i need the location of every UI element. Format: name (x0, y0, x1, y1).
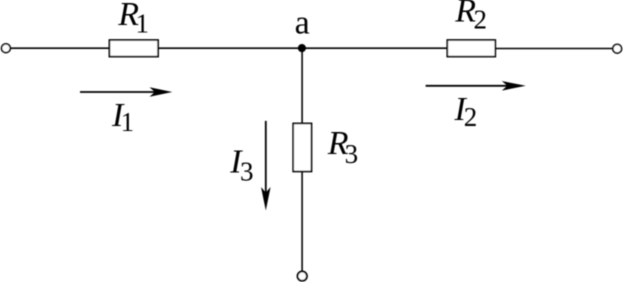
resistor R2 (447, 40, 495, 57)
svg-text:2: 2 (464, 102, 478, 132)
current arrow I2 (426, 81, 526, 91)
svg-text:3: 3 (345, 139, 359, 169)
bottom terminal (298, 271, 307, 280)
svg-text:1: 1 (121, 107, 135, 137)
wire node a to R2 (302, 47, 447, 49)
wire node a down to R3 (301, 48, 303, 123)
current arrow I1 (80, 87, 172, 97)
wire R3 to bottom terminal (301, 172, 303, 271)
svg-text:1: 1 (136, 8, 150, 38)
wire left terminal to R1 (11, 47, 110, 49)
current arrow I3 (261, 121, 271, 211)
svg-text:3: 3 (240, 157, 254, 187)
right terminal (613, 44, 622, 53)
wire R2 to right terminal (495, 48, 612, 50)
resistor R1 (109, 40, 158, 57)
node a junction dot (298, 44, 306, 52)
left terminal (2, 44, 11, 53)
resistor R3 (293, 123, 311, 171)
svg-text:a: a (295, 5, 310, 42)
svg-text:2: 2 (474, 4, 488, 34)
wire R1 to node a (158, 47, 302, 49)
